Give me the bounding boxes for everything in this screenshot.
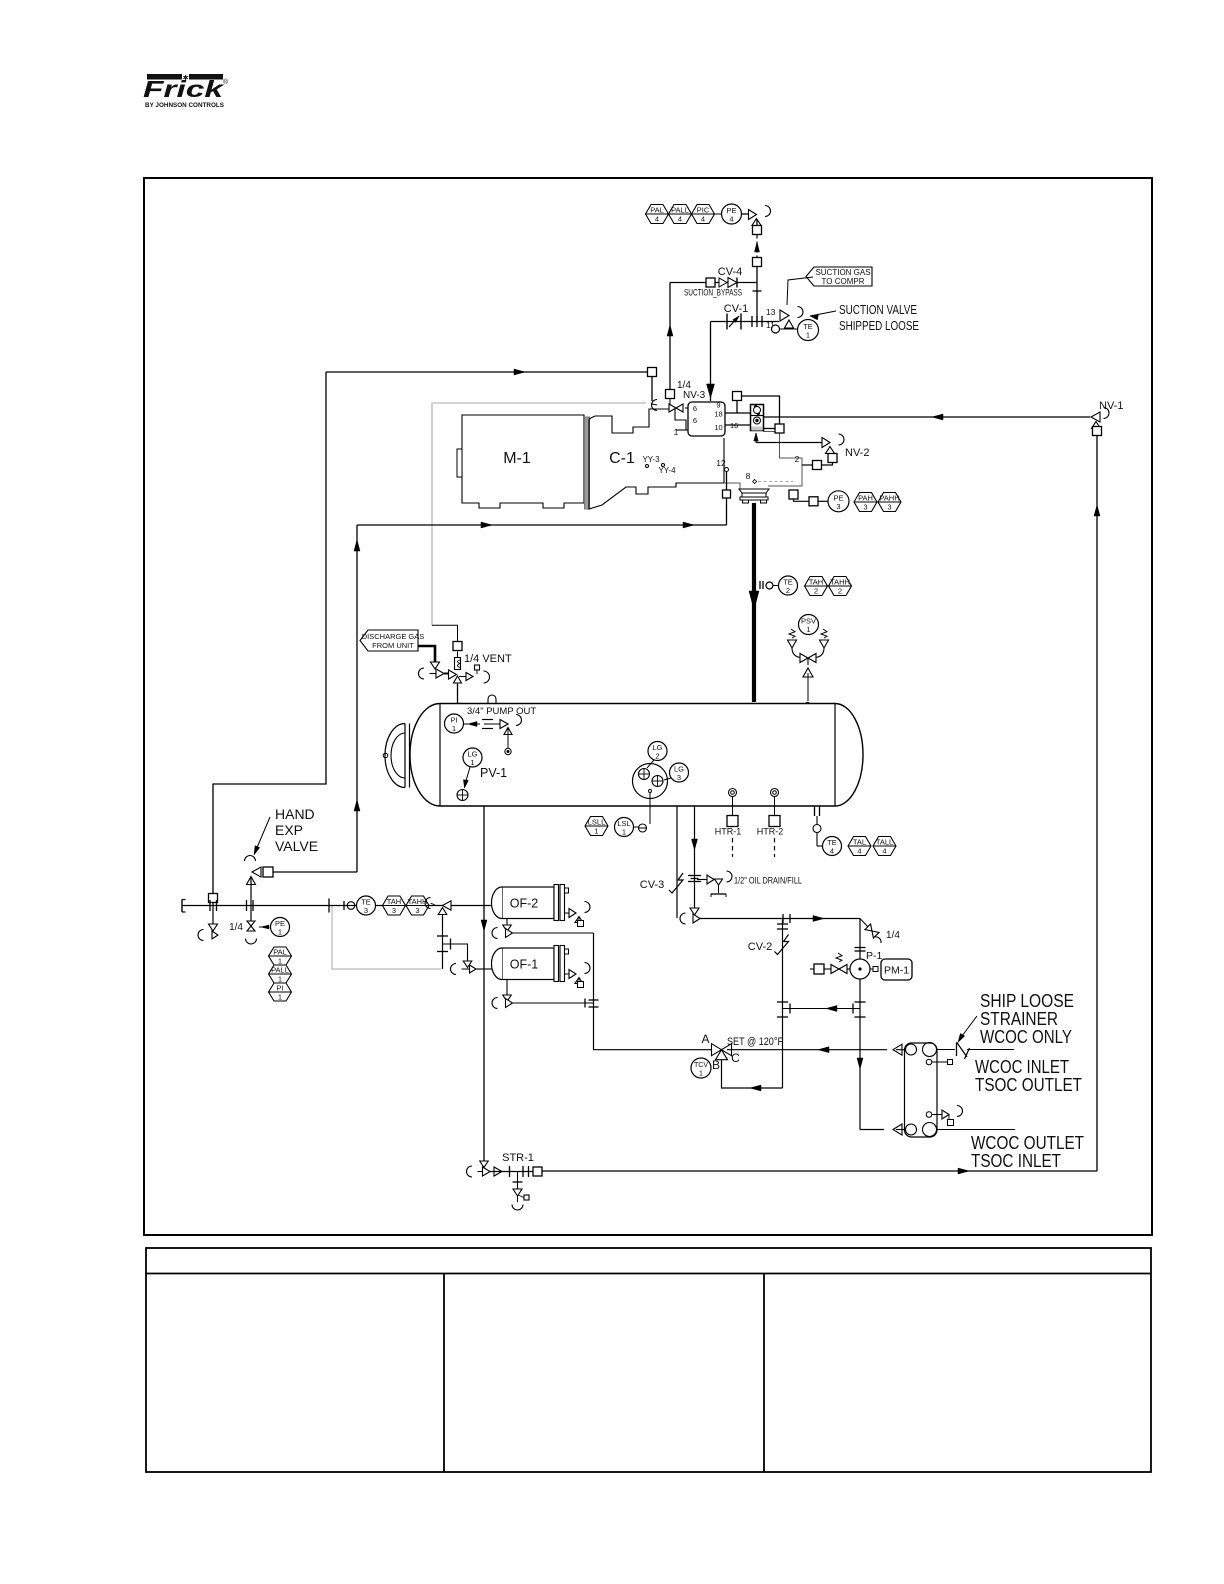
svg-text:PALL: PALL <box>271 966 289 975</box>
connector square 2 <box>753 258 762 267</box>
relief valve OF-2 <box>565 902 591 927</box>
svg-text:PAH: PAH <box>858 494 873 503</box>
pipe oil header <box>699 914 860 923</box>
svg-text:STRAINER: STRAINER <box>980 1009 1058 1029</box>
svg-text:1/4 VENT: 1/4 VENT <box>464 653 512 665</box>
svg-text:VALVE: VALVE <box>275 838 318 854</box>
wire vent riser <box>457 652 459 704</box>
label SUCTION_BYPASS <box>684 288 742 298</box>
svg-text:HAND: HAND <box>275 806 315 822</box>
svg-text:NV-1: NV-1 <box>1099 400 1123 412</box>
svg-text:NV-3: NV-3 <box>683 390 706 401</box>
tap circle TE-1 <box>772 325 798 333</box>
open triangle PSV <box>803 668 813 677</box>
svg-text:4: 4 <box>678 215 682 224</box>
pipe from port12 loop down <box>213 372 326 894</box>
suction pressure tap line <box>753 267 762 322</box>
svg-text:WCOC ONLY: WCOC ONLY <box>980 1027 1072 1047</box>
connector square PE-3 <box>809 497 818 506</box>
svg-text:TCV: TCV <box>694 1062 708 1069</box>
svg-text:CV-1: CV-1 <box>724 303 748 315</box>
pin 1 <box>674 428 679 437</box>
svg-text:13: 13 <box>766 307 776 317</box>
wire pump to PM-1 <box>870 967 878 972</box>
svg-text:3: 3 <box>863 503 867 512</box>
svg-text:3: 3 <box>392 906 396 915</box>
instrument TAHH-3 <box>406 896 429 915</box>
wire NV-3 to port6 <box>685 407 688 409</box>
discharge flange <box>739 489 769 503</box>
flag DISCHARGE GAS FROM UNIT <box>360 630 424 651</box>
wire PE-4 to valve <box>742 213 751 215</box>
svg-text:1: 1 <box>470 758 474 767</box>
svg-text:B: B <box>712 1058 720 1072</box>
cooler inlet triangle top <box>893 1044 905 1055</box>
svg-text:2: 2 <box>838 587 842 596</box>
label STR-1 <box>502 1152 534 1164</box>
svg-text:9: 9 <box>716 401 720 410</box>
svg-text:TAHH: TAHH <box>830 578 850 587</box>
svg-text:PALL: PALL <box>671 206 689 215</box>
dashed vent line with arrow <box>755 235 760 259</box>
vent junction valve <box>449 670 462 683</box>
flag SUCTION GAS TO COMPR <box>787 267 872 305</box>
driver box PM-1 <box>881 959 912 980</box>
label 13 <box>766 307 776 317</box>
oil cooler WCOC <box>905 1043 938 1137</box>
wire horizontal to connector <box>326 369 648 375</box>
svg-text:NV-2: NV-2 <box>845 447 869 459</box>
cooler port bottom right <box>923 1123 937 1137</box>
connector square NV-1 <box>1093 427 1102 436</box>
union oil line <box>688 876 701 882</box>
pipe discharge thick <box>749 503 759 702</box>
valve OF-2 drain <box>492 919 593 939</box>
leader LG-2 <box>647 760 654 768</box>
svg-text:CV-4: CV-4 <box>718 266 742 278</box>
instrument TE-2 <box>779 576 798 595</box>
label 3/4 PUMP OUT <box>467 706 536 717</box>
svg-text:TAH: TAH <box>809 578 823 587</box>
svg-text:DISCHARGE GAS: DISCHARGE GAS <box>362 632 425 641</box>
wire bypass loop <box>742 396 780 424</box>
instrument PI-1 <box>445 714 464 733</box>
svg-text:YY-4: YY-4 <box>658 466 676 475</box>
manway circle with level glasses <box>633 764 668 799</box>
instrument PE-3 <box>828 491 849 512</box>
valve STR-1 inline <box>490 1166 533 1177</box>
svg-text:1/4: 1/4 <box>886 930 900 941</box>
label TSOC OUTLET <box>975 1075 1082 1095</box>
svg-text:2: 2 <box>655 752 659 761</box>
heater HTR-2 <box>769 789 780 858</box>
instrument LG-2 <box>648 742 667 761</box>
STR-1 drain <box>512 1172 529 1211</box>
pipe oil return to NV-1 <box>764 414 1091 420</box>
svg-text:1: 1 <box>594 827 598 836</box>
svg-text:2: 2 <box>795 454 800 464</box>
label C-1 <box>609 450 635 467</box>
pipe oil out of separator <box>692 806 698 910</box>
svg-text:3/4" PUMP OUT: 3/4" PUMP OUT <box>467 706 536 717</box>
label HAND EXP VALVE <box>275 806 318 854</box>
coupling bar <box>585 417 590 509</box>
wire HEV to riser <box>273 871 357 873</box>
svg-text:TSOC INLET: TSOC INLET <box>971 1151 1061 1171</box>
label CV-3 <box>640 879 664 891</box>
svg-text:YY-3: YY-3 <box>642 455 660 464</box>
svg-text:1/4: 1/4 <box>229 922 243 933</box>
svg-text:3: 3 <box>364 906 368 915</box>
instrument TALL-4 <box>873 837 896 856</box>
instrument TAH-3 <box>383 896 406 915</box>
diagram border frame <box>144 178 1152 1235</box>
label C <box>731 1051 740 1065</box>
svg-text:10: 10 <box>714 423 722 432</box>
label NV-2 <box>845 447 869 459</box>
svg-text:WCOC OUTLET: WCOC OUTLET <box>971 1133 1084 1153</box>
wire PSV to vessel <box>805 673 809 707</box>
svg-text:OF-1: OF-1 <box>510 958 539 972</box>
instrument LG-1 <box>463 748 482 767</box>
connector square port12 <box>723 490 731 498</box>
label port 8 <box>746 471 757 484</box>
valve into STR-1 <box>467 1161 491 1177</box>
strainer ship loose <box>937 1042 1015 1059</box>
label TSOC INLET <box>971 1151 1061 1171</box>
svg-text:LSLL: LSLL <box>588 818 606 827</box>
instrument TAHH-2 <box>829 577 852 596</box>
svg-text:3: 3 <box>677 773 681 782</box>
svg-text:1: 1 <box>699 1071 703 1078</box>
svg-text:WCOC INLET: WCOC INLET <box>975 1057 1069 1077</box>
svg-text:PAHH: PAHH <box>879 494 899 503</box>
label YY-3 <box>642 455 660 468</box>
needle valve 1/4 tap <box>860 919 900 944</box>
pump P-1 <box>850 959 870 979</box>
wire solenoid to NV-2 <box>754 433 822 443</box>
label STRAINER <box>980 1009 1058 1029</box>
wire NV-2 to port 2 <box>802 463 833 466</box>
svg-text:PAL: PAL <box>273 948 287 957</box>
label YY-4 <box>658 464 676 476</box>
pipe liquid line <box>182 905 492 907</box>
instrument TE-3 <box>357 896 376 915</box>
instrument PE-4 <box>722 204 742 224</box>
label port 2 <box>795 454 800 464</box>
connector square below NV-2 <box>828 454 837 463</box>
svg-text:4: 4 <box>655 215 659 224</box>
cooler drain bottom <box>926 1106 962 1126</box>
pipe pump bypass <box>783 1004 861 1014</box>
wire vent from enclosure <box>432 625 458 642</box>
bypass connector square A <box>733 392 742 401</box>
label NV-1 <box>1099 400 1123 412</box>
label P-1 <box>866 950 883 962</box>
signal line to PIC-4 chain <box>646 213 721 215</box>
connector square HEV <box>263 867 273 877</box>
tick tall on liquid line <box>328 899 330 913</box>
oil outlet stub TE-4 <box>813 806 822 846</box>
instrument PSV-1 <box>799 615 819 635</box>
bypass connector square B <box>775 424 784 433</box>
cooler port top right <box>923 1043 937 1057</box>
label port 12 <box>716 458 728 472</box>
pin 9 <box>716 401 720 410</box>
instrument TCV-1 <box>691 1058 711 1078</box>
pipe OF branch <box>437 914 448 969</box>
instrument PAL-1 <box>269 947 292 966</box>
wire port 12 riser <box>726 472 728 526</box>
motor M-1 outline <box>457 415 584 508</box>
svg-text:TAHH: TAHH <box>408 897 428 906</box>
svg-text:18: 18 <box>714 410 722 419</box>
pipe CV-2 branch <box>777 919 788 1089</box>
wire valve to square <box>756 219 758 226</box>
relief valve left <box>788 629 801 658</box>
instrument LG-3 <box>670 763 689 782</box>
pin 18 <box>714 410 722 419</box>
svg-text:4: 4 <box>729 215 733 224</box>
wire OF-1 feed <box>443 939 468 963</box>
wire square to line <box>210 900 217 928</box>
relief valve at pump <box>810 953 850 974</box>
svg-text:3: 3 <box>887 503 891 512</box>
cooler inlet triangle bottom <box>893 1124 905 1135</box>
connector square port 2 <box>813 461 822 470</box>
label SHIP LOOSE <box>980 991 1074 1011</box>
svg-text:1: 1 <box>452 724 456 733</box>
instrument PI-1h <box>269 983 292 1002</box>
label PV-1 <box>480 766 507 780</box>
svg-text:PAL: PAL <box>650 206 664 215</box>
svg-text:CV-3: CV-3 <box>640 879 664 891</box>
instrument PALL-1 <box>269 965 292 984</box>
label CV-2 <box>748 941 772 953</box>
leader PE-1 <box>259 925 269 929</box>
svg-text:OF-2: OF-2 <box>510 897 539 911</box>
angle valve oil outlet <box>680 908 700 924</box>
instrument PAHH-3 <box>878 493 901 512</box>
svg-text:1: 1 <box>278 928 282 937</box>
svg-text:1: 1 <box>278 993 282 1002</box>
needle valve NV-3 <box>652 399 683 413</box>
instrument LSL-1 <box>615 818 634 837</box>
instrument PAL-4 <box>646 205 669 224</box>
svg-text:3: 3 <box>836 502 840 511</box>
pipe separator to strainer <box>481 806 487 1164</box>
valve CV-1 <box>727 314 741 330</box>
svg-text:C-1: C-1 <box>609 450 635 467</box>
svg-text:®: ® <box>223 78 229 86</box>
valve TCV-1 <box>712 1044 732 1060</box>
svg-text:BY JOHNSON CONTROLS: BY JOHNSON CONTROLS <box>145 102 225 109</box>
pipe TCV B line <box>722 1060 783 1091</box>
instrument TAH-2 <box>805 577 828 596</box>
valve NV-2 <box>822 434 844 454</box>
svg-text:1: 1 <box>674 428 679 437</box>
label 11 <box>766 320 775 330</box>
pump out line <box>464 720 505 729</box>
svg-text:HTR-2: HTR-2 <box>757 827 784 837</box>
relief valve OF-1 <box>565 963 591 988</box>
pin 16 <box>730 421 738 430</box>
svg-text:2: 2 <box>814 587 818 596</box>
valve CV-3 <box>669 873 683 893</box>
vent branch valve <box>459 665 490 683</box>
wire CV-4 riser <box>667 283 673 391</box>
flange ticks at junction 13-11 <box>752 316 762 327</box>
svg-text:SHIPPED LOOSE: SHIPPED LOOSE <box>839 319 919 333</box>
svg-text:TALL: TALL <box>876 838 893 847</box>
svg-text:1: 1 <box>806 625 810 634</box>
cooler vent top <box>926 1059 952 1065</box>
wire port10-16 to solenoid <box>725 424 751 426</box>
connector square CV-4 <box>706 278 715 287</box>
svg-text:6: 6 <box>693 404 697 413</box>
valve OF-1 drain <box>492 980 593 1009</box>
vessel top fitting <box>488 695 496 703</box>
svg-text:M-1: M-1 <box>503 450 531 467</box>
instrument PALL-4 <box>669 205 692 224</box>
label 1/4 NV-3 <box>677 380 706 401</box>
svg-text:1/2" OIL DRAIN/FILL: 1/2" OIL DRAIN/FILL <box>734 876 802 887</box>
connector square vent <box>453 642 462 651</box>
connector square STR-1 <box>533 1167 542 1176</box>
pipe liquid injection riser <box>354 525 360 872</box>
vent angle valve <box>419 662 445 679</box>
svg-text:1: 1 <box>806 331 810 340</box>
svg-text:6: 6 <box>693 416 697 425</box>
svg-text:TSOC OUTLET: TSOC OUTLET <box>975 1075 1082 1095</box>
three-way valve to filters <box>425 898 451 915</box>
svg-text:SUCTION VALVE: SUCTION VALVE <box>839 303 917 317</box>
instrument PAH-3 <box>854 493 877 512</box>
drain valve liquid <box>198 924 218 941</box>
pipe STR-1 to NV-1 riser <box>542 1168 1097 1174</box>
instrument TE-4 <box>823 837 842 856</box>
svg-text:Frick: Frick <box>143 76 225 102</box>
svg-text:EXP: EXP <box>275 822 303 838</box>
pipe NV-1 riser <box>1094 436 1100 1172</box>
wire port1 stub <box>676 429 688 431</box>
svg-text:STR-1: STR-1 <box>502 1152 534 1164</box>
valve CV-2 <box>775 935 789 955</box>
pump out valve <box>500 715 522 755</box>
svg-text:PV-1: PV-1 <box>480 766 507 780</box>
level target LG-1 <box>457 790 468 801</box>
gray dashed line port 8 <box>758 481 793 483</box>
wire flag to vent <box>418 646 435 664</box>
wire CV-4 bypass horizontal <box>670 282 757 284</box>
wire level to LSL <box>649 793 651 825</box>
connector square NV-3 <box>666 390 675 399</box>
muffler vent <box>455 658 461 670</box>
wire CV-1 down to compressor <box>707 322 715 402</box>
svg-text:1: 1 <box>278 975 282 984</box>
cooler port bottom left <box>906 1124 917 1135</box>
leader to suction valve <box>810 311 836 320</box>
label B <box>712 1058 720 1072</box>
gray enclosure line around motor <box>432 403 646 625</box>
connector square discharge tap <box>789 490 798 499</box>
instrument TAL-4 <box>848 837 871 856</box>
svg-text:PI: PI <box>276 984 283 993</box>
vessel manway <box>383 724 409 788</box>
connector square below PE-4 valve <box>753 226 762 235</box>
wire vent tee <box>444 673 453 675</box>
pipe pump to cooler bottom <box>860 1129 884 1131</box>
svg-text:2: 2 <box>786 586 790 595</box>
cooler port top left <box>906 1044 917 1055</box>
svg-text:SET @ 120°F: SET @ 120°F <box>727 1036 783 1048</box>
svg-text:PIC: PIC <box>697 206 710 215</box>
svg-text:SUCTION GAS: SUCTION GAS <box>815 268 870 277</box>
pipe pump suction drop <box>855 919 866 1130</box>
wire bypass square A <box>736 401 738 414</box>
svg-text:4: 4 <box>701 215 705 224</box>
wire square B to block <box>764 428 776 430</box>
leader hand exp valve <box>254 817 270 855</box>
label 1/2 OIL DRAIN/FILL <box>734 876 802 887</box>
connector square above NV-3 <box>648 368 657 377</box>
end bracket <box>182 900 186 913</box>
oil filter OF-1 <box>492 946 569 982</box>
label CV-4 <box>718 266 742 278</box>
pin 6 upper <box>693 404 697 413</box>
pipe liquid injection <box>357 522 727 528</box>
hand expansion valve <box>245 856 262 885</box>
wire to NV-3 <box>651 377 653 402</box>
svg-text:4: 4 <box>830 847 834 856</box>
svg-text:PM-1: PM-1 <box>884 965 909 977</box>
svg-text:HTR-1: HTR-1 <box>715 827 742 837</box>
suction valve shipped loose <box>780 307 803 329</box>
wire port9-18 to solenoid <box>725 412 751 414</box>
vessel PV-1 shell <box>410 704 863 807</box>
instrument TE-1 <box>798 320 819 341</box>
leader LG-3 <box>664 778 671 780</box>
wire HEV down <box>247 877 254 922</box>
svg-text:SUCTION_BYPASS: SUCTION_BYPASS <box>684 288 742 298</box>
heater HTR-1 <box>727 789 738 858</box>
svg-text:C: C <box>731 1051 740 1065</box>
valve OF-1 inlet <box>451 961 492 975</box>
label SET at 120F <box>727 1036 783 1048</box>
tap TE-2 <box>760 581 778 589</box>
gray signal loop TE-3 <box>332 906 441 970</box>
label A <box>701 1032 709 1046</box>
label M-1 <box>503 450 531 467</box>
Frick logo <box>143 74 229 109</box>
connector square liquid <box>209 894 218 903</box>
valve NV-1 <box>1091 408 1109 429</box>
three-way valve PSV <box>800 654 816 666</box>
svg-text:TAH: TAH <box>387 897 401 906</box>
label WCOC INLET <box>975 1057 1069 1077</box>
instrument PIC-4 <box>692 205 715 224</box>
pipe CV-3 branch <box>676 806 678 918</box>
oil drain fill branch <box>697 871 732 897</box>
leader ship loose strainer <box>958 1016 977 1043</box>
leader LG-1 <box>463 767 470 788</box>
svg-text:12: 12 <box>716 458 726 468</box>
svg-text:4: 4 <box>857 847 861 856</box>
needle valve 1/4 PE-1 <box>229 921 256 944</box>
wire discharge tap <box>794 499 829 501</box>
suction port box <box>688 402 725 436</box>
pin 6 lower <box>693 416 697 425</box>
